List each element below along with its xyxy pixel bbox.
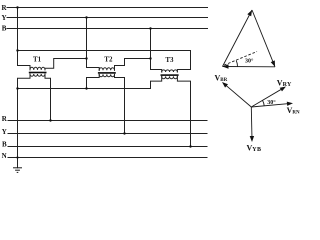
arrowhead: V_BR [222, 82, 228, 88]
wire: phasor V_YB [250, 107, 253, 140]
wire: bottom bus R [8, 120, 207, 122]
svg-text:VYB: VYB [247, 143, 262, 153]
arrowhead: V_RN [287, 102, 293, 106]
wire: phasor V_RY [251, 88, 284, 107]
svg-text:VBR: VBR [215, 74, 228, 84]
transformer T1 core [29, 72, 47, 74]
node: delta return joins R-tap [16, 49, 18, 51]
transformer T3 core [161, 74, 179, 76]
wire: T3 secondary left lead to neutral bus (star point) [18, 76, 162, 88]
node: neutral joins bottom N [16, 156, 18, 158]
transformer T1 secondary winding [30, 74, 45, 76]
wire: bottom bus Y [8, 133, 207, 135]
transformer T3 primary winding [162, 70, 178, 72]
wire: phasor V_BR [224, 84, 251, 107]
wire: top bus R [7, 7, 208, 9]
svg-text:VRN: VRN [287, 106, 300, 116]
node: T1 staircase joins Y-tap [85, 57, 87, 59]
arrowhead: triangle bottom left [223, 64, 229, 68]
node: T1 secondary joins bottom R [49, 119, 51, 121]
svg-text:30°: 30° [245, 57, 254, 64]
svg-text:Y: Y [2, 14, 7, 22]
wire: bottom bus B [8, 146, 207, 148]
node: T2 secondary joins neutral bus [85, 87, 87, 89]
wire: top bus Y [7, 17, 208, 19]
svg-text:VRY: VRY [277, 78, 292, 88]
svg-text:Y: Y [2, 128, 7, 136]
phasor star diagram [224, 84, 291, 140]
wire: T1 secondary left lead down to neutral bus and earth [18, 74, 31, 168]
arrowhead: V_YB [250, 136, 254, 142]
svg-text:R: R [2, 115, 8, 123]
transformer T2 core [98, 72, 116, 74]
wire: delta return line from R-tap to T3 primary right [18, 51, 191, 73]
arrowhead: triangle apex [247, 10, 252, 16]
transformer T2 secondary winding [99, 74, 114, 76]
arc: 30 degree angle at BL [236, 60, 237, 66]
wire: bottom bus N [8, 157, 207, 159]
phasor triangle (line voltage delta) [223, 10, 276, 67]
wire: top bus B [7, 28, 208, 30]
wire: T2 secondary right lead down to bottom Y bus [115, 74, 125, 133]
svg-text:T2: T2 [104, 56, 113, 64]
arc: 30 degree angle between V_RY and V_RN [263, 100, 265, 105]
wire: B-tap vertical to T3 primary left [151, 29, 162, 73]
wire: triangle edge BR to BL [223, 66, 276, 68]
svg-text:T3: T3 [165, 56, 174, 64]
transformer T1 primary winding [30, 67, 45, 70]
svg-text:B: B [2, 140, 7, 148]
arrowhead: V_RY [280, 87, 286, 92]
transformer T2 primary winding [99, 68, 114, 71]
svg-text:30°: 30° [267, 99, 276, 106]
wire: T3 secondary right lead down to bottom B bus [177, 76, 190, 146]
wire: T1 primary right staircase to Y-tap [45, 59, 87, 70]
svg-text:T1: T1 [33, 55, 42, 63]
wire: R-tap vertical to T1 primary left [18, 8, 31, 70]
arrowhead: triangle bottom right [271, 60, 275, 66]
node: T3 secondary joins bottom B [189, 145, 191, 147]
node: T2 staircase joins B-tap [149, 57, 151, 59]
transformer T3 secondary winding [162, 76, 178, 78]
wire: phasor V_RN [251, 103, 290, 107]
svg-text:B: B [2, 25, 7, 33]
wire: T1 secondary right lead down to bottom R bus [45, 74, 51, 121]
node: R line tap junction [16, 6, 18, 8]
ground (earth) symbol [13, 168, 22, 173]
wire: dashed bisector from BL [224, 52, 257, 66]
wire: triangle edge apex to BR [252, 10, 275, 67]
wire: T2 secondary left lead down to neutral bus [87, 74, 100, 88]
node: B line tap junction [149, 27, 151, 29]
wire: Y-tap vertical to T2 primary left [87, 18, 100, 71]
wire: triangle edge BL to apex [223, 10, 253, 67]
svg-text:N: N [2, 152, 7, 160]
node: T2 secondary joins bottom Y [123, 132, 125, 134]
wire: T2 primary right staircase to B-tap [115, 59, 151, 71]
node: T1 secondary joins neutral bus [16, 87, 18, 89]
node: Y line tap junction [85, 16, 87, 18]
